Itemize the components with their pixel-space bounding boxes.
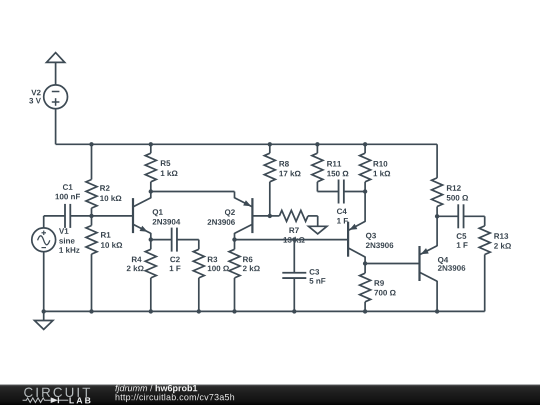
label Q1 bbox=[153, 209, 163, 216]
wire Q2 collector to Q3 base bbox=[235, 239, 349, 241]
label R6 value 2 kOhm bbox=[243, 265, 260, 271]
label Q3 part 2N3906 bbox=[366, 243, 393, 249]
capacitor C5 1 F bbox=[437, 215, 458, 217]
label 3 V bbox=[29, 98, 41, 104]
CircuitLab logo resistor-diode squiggle bbox=[23, 398, 51, 403]
label R5 bbox=[161, 160, 171, 166]
footer url bbox=[116, 394, 235, 402]
resistor R13 2 k&#937; bbox=[484, 216, 486, 226]
label C2 value 1 F bbox=[170, 266, 181, 272]
footer bar background bbox=[0, 385, 540, 405]
resistor R4 2 k&#937; bbox=[150, 240, 152, 250]
sine source V1 (1 kHz) bbox=[32, 228, 56, 252]
label R9 bbox=[375, 280, 384, 286]
ground symbol main bbox=[43, 311, 45, 320]
ground symbol at R7 bbox=[317, 216, 319, 226]
label C3 bbox=[310, 269, 320, 275]
resistor R5 1 k&#937; bbox=[150, 144, 152, 153]
label R9 value 700 Ohm bbox=[374, 290, 395, 296]
junction C1/R2/R1/Q1 base bbox=[89, 214, 93, 218]
junction top rail / R11 bbox=[315, 142, 319, 146]
capacitor C1 100 nF bbox=[64, 204, 66, 228]
CircuitLab logo text CIRCUIT bbox=[24, 388, 90, 398]
label Q1 part 2N3904 bbox=[153, 219, 181, 225]
label C5 bbox=[457, 233, 467, 239]
junction Q2 collector/R6/output wire bbox=[232, 237, 236, 241]
resistor R11 150 &#937; bbox=[316, 144, 318, 153]
junction ground rail / V1 bbox=[42, 309, 46, 313]
label V1 bbox=[59, 228, 69, 234]
label R13 value 2 kOhm bbox=[494, 243, 511, 249]
label R10 bbox=[374, 161, 388, 167]
junction top rail / R10 bbox=[363, 142, 367, 146]
label C2 bbox=[170, 257, 180, 263]
label Q3 bbox=[366, 233, 376, 240]
resistor R2 10 k&#937; bbox=[91, 144, 93, 179]
label R11 value 150 Ohm bbox=[327, 171, 348, 177]
transistor Q2 2N3906 (PNP) bbox=[251, 198, 253, 233]
label R2 bbox=[100, 185, 109, 191]
label R5 value 1 kOhm bbox=[161, 170, 178, 176]
wire Q1 collector row to Q2 emitter bbox=[151, 191, 235, 193]
power supply VCC arrow symbol bbox=[47, 53, 65, 63]
junction R10/C4/Q3 emitter bbox=[363, 189, 367, 193]
CircuitLab logo text LAB bbox=[70, 397, 91, 403]
label R1 bbox=[101, 232, 111, 238]
label sine bbox=[59, 238, 74, 244]
junction ground rail / R1 bbox=[89, 309, 93, 313]
wire V2 to top rail bbox=[55, 109, 57, 145]
label R12 value 500 Ohm bbox=[447, 195, 469, 201]
resistor R3 100 &#937; bbox=[198, 240, 200, 250]
resistor R8 17 k&#937; bbox=[269, 144, 271, 153]
resistor R1 10 k&#937; bbox=[91, 216, 93, 226]
label Q4 bbox=[438, 257, 448, 264]
label R10 value 1 kOhm bbox=[374, 171, 391, 177]
junction ground rail / R9 bbox=[363, 309, 367, 313]
junction top rail / R5 bbox=[149, 142, 153, 146]
label R12 bbox=[447, 185, 461, 191]
label 100 nF bbox=[56, 194, 81, 200]
footer credit line author/title bbox=[115, 385, 197, 393]
junction ground rail / R3 bbox=[197, 309, 201, 313]
wire V1 top to C1 bbox=[43, 216, 45, 228]
label Q2 bbox=[225, 209, 235, 216]
resistor R7 13 k&#937; bbox=[270, 215, 280, 217]
capacitor C2 1 F bbox=[151, 239, 172, 241]
label 1 kHz bbox=[59, 247, 79, 253]
wire bottom ground rail bbox=[44, 310, 485, 312]
resistor R12 500 &#937; bbox=[436, 144, 438, 178]
junction ground rail / C3 bbox=[292, 309, 296, 313]
junction ground rail / Q4 collector bbox=[435, 309, 439, 313]
capacitor C4 1 F bbox=[317, 191, 338, 193]
resistor R9 700 &#937; bbox=[364, 264, 366, 274]
label C4 value 1 F bbox=[337, 218, 348, 224]
label R7 value 13 kOhm bbox=[284, 237, 305, 243]
label Q4 part 2N3906 bbox=[438, 265, 465, 271]
label R2 value 10 kOhm bbox=[100, 195, 121, 201]
label R7 bbox=[289, 228, 298, 234]
label C1 bbox=[63, 184, 73, 190]
label R8 bbox=[279, 161, 289, 167]
junction top rail / R8 bbox=[268, 142, 272, 146]
wire V1 bottom to ground rail bbox=[43, 252, 45, 312]
label C3 value 5 nF bbox=[309, 278, 325, 284]
transistor Q1 2N3904 (NPN) bbox=[132, 198, 134, 233]
junction ground rail / R4 bbox=[149, 309, 153, 313]
label R8 value 17 kOhm bbox=[279, 171, 300, 177]
label V2 bbox=[31, 90, 40, 96]
capacitor C3 5 nF bbox=[293, 240, 295, 273]
label R4 bbox=[132, 257, 142, 263]
transistor Q4 2N3906 (PNP) bbox=[418, 246, 420, 281]
label Q2 part 2N3906 bbox=[208, 219, 235, 225]
label R1 value 10 kOhm bbox=[101, 242, 122, 248]
transistor Q3 2N3906 (PNP) bbox=[347, 222, 349, 257]
junction Q3 collector/R9/Q4 base bbox=[363, 261, 367, 265]
junction R8/Q2 base/R7 bbox=[268, 214, 272, 218]
label R3 value 100 Ohm bbox=[208, 266, 229, 272]
junction ground rail / R6 bbox=[232, 309, 236, 313]
wire Q3 collector to Q4 base bbox=[365, 263, 420, 265]
label C4 bbox=[337, 209, 347, 215]
label R6 bbox=[243, 257, 252, 263]
label R11 bbox=[327, 161, 341, 167]
junction Q1 emitter/R4/C2 bbox=[149, 237, 153, 241]
label R3 bbox=[208, 257, 217, 263]
junction C3 tap bbox=[292, 237, 296, 241]
resistor R6 2 k&#937; bbox=[234, 240, 236, 250]
junction R5/Q1 collector/Q2 emitter bbox=[149, 189, 153, 193]
label R13 bbox=[494, 233, 508, 239]
resistor R10 1 k&#937; bbox=[364, 144, 366, 153]
wire top supply rail bbox=[56, 143, 438, 145]
label C5 value 1 F bbox=[457, 242, 468, 248]
junction R12/C5/Q4 emitter bbox=[435, 214, 439, 218]
voltage source V2 (3 V battery) bbox=[44, 85, 68, 109]
wire C1 to node at R2/R1 bbox=[70, 215, 133, 217]
label R4 value 2 kOhm bbox=[127, 265, 144, 271]
junction top rail / R2 bbox=[89, 142, 93, 146]
